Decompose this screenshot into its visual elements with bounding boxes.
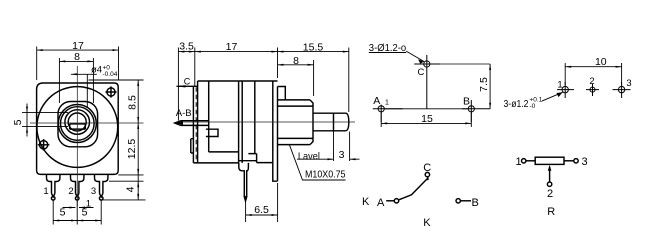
hole 2 — [590, 87, 595, 92]
lead 3 — [564, 160, 574, 162]
svg-text:R: R — [547, 206, 555, 218]
terminal A lead — [386, 200, 394, 202]
ring circle r19 — [58, 105, 96, 143]
pin 2 with shoulder and eyelet — [71, 174, 84, 193]
ring circle r17 — [61, 107, 95, 141]
M10 leader — [289, 144, 345, 180]
dim 6.5 — [246, 183, 278, 222]
bottom profile right of pin — [248, 154, 272, 163]
svg-text:1: 1 — [557, 80, 562, 91]
screw top-right — [107, 88, 115, 96]
Lavel line — [297, 132, 360, 162]
shaft circle — [68, 113, 86, 131]
lower rear tab — [191, 139, 194, 153]
svg-text:-0.04: -0.04 — [103, 71, 118, 78]
dim 5 left — [22, 104, 68, 137]
terminal B circle — [456, 199, 460, 203]
pot body front outline — [37, 83, 119, 174]
pin dark tip — [244, 196, 246, 200]
svg-text:A-B: A-B — [176, 108, 192, 119]
hole 1 — [562, 86, 568, 92]
svg-text:1: 1 — [385, 100, 389, 107]
A-B tab tip arrowhead — [175, 121, 184, 125]
resistor body — [535, 157, 564, 164]
svg-text:10: 10 — [595, 56, 607, 68]
terminal 2 circle — [547, 182, 551, 186]
svg-text:-0: -0 — [530, 103, 536, 110]
hole A — [378, 106, 384, 112]
svg-text:C: C — [184, 76, 191, 86]
internal notch — [206, 129, 257, 161]
svg-text:7.5: 7.5 — [478, 77, 490, 92]
svg-text:A: A — [373, 95, 380, 107]
svg-text:2: 2 — [547, 188, 553, 200]
svg-text:C: C — [423, 162, 431, 174]
svg-text:B: B — [463, 96, 470, 108]
hole B — [468, 106, 474, 112]
svg-text:1: 1 — [516, 156, 522, 168]
svg-text:3-Ø1.2-o: 3-Ø1.2-o — [369, 43, 407, 54]
front face plate right edge — [277, 87, 279, 182]
arrowheads front view — [37, 49, 43, 51]
svg-text:12.5: 12.5 — [126, 139, 138, 160]
svg-text:A: A — [377, 197, 385, 209]
svg-text:3: 3 — [582, 156, 588, 168]
hub squircle — [58, 102, 98, 147]
shaft slot — [70, 124, 86, 129]
dim 8.5 / 12.5 / 4 right — [89, 80, 146, 200]
mounting leg under face plate — [273, 163, 278, 182]
svg-text:3.5: 3.5 — [179, 40, 194, 52]
screw left — [39, 141, 47, 149]
side body main outline — [193, 81, 277, 163]
leader 3-phi1.2+0.1-0 — [542, 92, 563, 101]
dim phi4 line — [71, 74, 97, 108]
svg-text:3: 3 — [91, 186, 96, 197]
wiper line — [549, 170, 551, 182]
svg-text:15: 15 — [421, 113, 433, 125]
dim 8 top — [59, 58, 93, 103]
dim 1 bottom — [63, 207, 94, 209]
underline of 3-phi1.2-o — [369, 52, 406, 54]
boss circle — [65, 110, 90, 135]
dim 5 5 bottom — [53, 220, 101, 222]
wiper arrowhead — [548, 165, 552, 171]
svg-text:5: 5 — [82, 207, 88, 219]
terminal C tail — [427, 177, 429, 180]
svg-text:8: 8 — [293, 55, 299, 67]
switch lever — [399, 178, 429, 200]
lead 1 — [526, 160, 535, 162]
svg-text:8.5: 8.5 — [127, 95, 139, 110]
terminal C circle — [425, 172, 429, 176]
terminal A circle — [394, 199, 398, 203]
A-B line — [384, 108, 468, 110]
svg-text:K: K — [423, 217, 431, 229]
svg-text:17: 17 — [226, 41, 238, 53]
svg-text:2: 2 — [68, 186, 73, 197]
hole C — [424, 61, 430, 67]
svg-text:3-ø1.2: 3-ø1.2 — [504, 99, 529, 110]
rotor big circle — [37, 87, 118, 168]
terminal B lead — [461, 200, 472, 202]
dim 8 bushing — [278, 60, 314, 96]
dim 10 — [565, 63, 621, 85]
svg-text:3: 3 — [626, 78, 631, 89]
pin 3 with shoulder and eyelet — [95, 174, 108, 193]
dim 7.5 — [489, 64, 491, 109]
pin shoulder side — [239, 163, 249, 196]
horizontal centerline — [30, 122, 144, 124]
svg-text:5: 5 — [12, 119, 24, 125]
svg-text:6.5: 6.5 — [254, 204, 269, 216]
dim 17 top — [37, 47, 119, 81]
bottom pin extension lines — [53, 201, 101, 225]
terminal 3 circle — [574, 159, 578, 163]
svg-text:4: 4 — [125, 186, 137, 192]
plate dashed edge — [195, 87, 197, 163]
leader 3-phi1.2 — [406, 51, 424, 61]
svg-text:8: 8 — [74, 51, 80, 63]
side view arrowheads — [178, 51, 184, 53]
anti-rotation lug — [278, 87, 286, 100]
top dim chain line — [178, 48, 348, 121]
svg-text:2: 2 — [589, 76, 594, 87]
round shaft — [313, 113, 349, 131]
pin 1 with shoulder and eyelet — [47, 174, 60, 193]
dim 15 — [381, 112, 471, 127]
rear A-B tab with pointed tip — [175, 121, 208, 126]
internal lamination lines — [209, 81, 273, 163]
svg-text:B: B — [472, 197, 479, 209]
C line to 7.5 dim — [430, 63, 490, 65]
svg-text:M10X0.75: M10X0.75 — [305, 169, 346, 181]
svg-text:ø4: ø4 — [91, 65, 102, 76]
side view centerline — [176, 121, 355, 123]
svg-text:C: C — [418, 67, 425, 78]
svg-text:K: K — [362, 196, 370, 208]
vertical centerline — [76, 66, 78, 206]
svg-text:Lavel: Lavel — [298, 150, 320, 162]
svg-text:1: 1 — [43, 186, 48, 197]
terminal 1 circle — [522, 159, 526, 163]
svg-text:5: 5 — [60, 207, 66, 219]
threaded bushing M10 — [278, 100, 314, 145]
svg-text:15.5: 15.5 — [303, 41, 324, 53]
hole 3 — [618, 86, 624, 92]
svg-text:3: 3 — [339, 149, 345, 161]
C marker arrowhead — [176, 85, 185, 87]
C marker arrow line — [177, 85, 198, 87]
front view centerlines — [30, 66, 144, 206]
